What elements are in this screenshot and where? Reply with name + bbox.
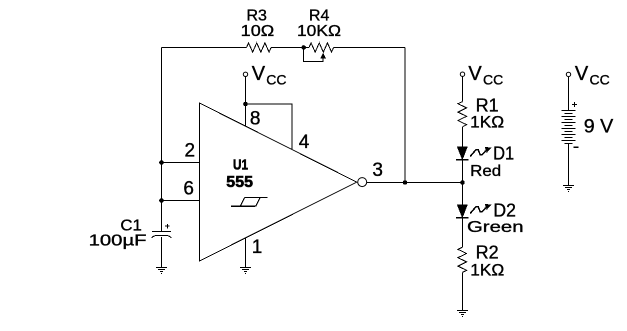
ground at C1 bbox=[156, 268, 167, 274]
op-amp U1 555 triangle body bbox=[200, 103, 357, 261]
wire R2 to ground bbox=[462, 272, 464, 310]
wire top-left horizontal (left node to R3) bbox=[162, 47, 247, 49]
node junction output/top rail bbox=[403, 180, 408, 185]
svg-text:3: 3 bbox=[372, 160, 383, 181]
svg-text:10Ω: 10Ω bbox=[241, 23, 275, 40]
svg-text:U1: U1 bbox=[233, 157, 248, 174]
svg-text:CC: CC bbox=[483, 71, 503, 87]
ground at pin 1 bbox=[240, 268, 251, 274]
battery BT1 9V plates bbox=[561, 111, 575, 144]
svg-text:6: 6 bbox=[183, 179, 194, 200]
wire D2 to R2 bbox=[462, 218, 464, 247]
svg-text:D1: D1 bbox=[493, 144, 514, 164]
svg-text:CC: CC bbox=[590, 71, 610, 87]
R4 wiper wire bbox=[304, 48, 324, 62]
svg-text:D2: D2 bbox=[493, 201, 516, 221]
svg-text:555: 555 bbox=[226, 174, 253, 191]
svg-text:V: V bbox=[468, 63, 482, 85]
wire R3 to R4 bbox=[271, 47, 309, 49]
resistor R2 bbox=[458, 247, 467, 272]
Vcc terminal above R1 bbox=[460, 72, 464, 76]
svg-text:V: V bbox=[575, 63, 589, 85]
svg-text:8: 8 bbox=[250, 109, 261, 130]
wire pin 1 bbox=[245, 238, 247, 267]
wire Vcc to pin 8 bbox=[245, 77, 247, 127]
battery plus sign bbox=[572, 102, 577, 107]
U1 output bubble pin 3 bbox=[358, 178, 367, 187]
ground at R2 bbox=[457, 311, 468, 317]
U1 hysteresis symbol bbox=[231, 197, 268, 206]
wire Vcc to R1 bbox=[462, 76, 464, 101]
resistor R3 bbox=[247, 43, 272, 52]
C1 polarity plus bbox=[165, 224, 170, 229]
LED D1 body bbox=[458, 147, 468, 159]
Vcc terminal above battery bbox=[566, 72, 570, 76]
svg-text:1KΩ: 1KΩ bbox=[470, 113, 504, 132]
svg-text:1KΩ: 1KΩ bbox=[470, 260, 504, 279]
wire C1 to ground bbox=[161, 237, 163, 268]
node junction pin6/left rail bbox=[159, 198, 164, 203]
capacitor C1 top plate bbox=[152, 230, 171, 232]
resistor R1 bbox=[458, 102, 467, 127]
wire R4 to top-right corner bbox=[334, 47, 405, 49]
svg-text:R4: R4 bbox=[309, 7, 330, 24]
svg-text:Red: Red bbox=[470, 163, 501, 180]
wire D1 to D2 bbox=[462, 160, 464, 205]
wire Vcc to battery bbox=[568, 77, 570, 111]
LED D2 light arrow bbox=[470, 207, 486, 214]
R4 wiper arrowhead bbox=[320, 53, 326, 59]
svg-text:10KΩ: 10KΩ bbox=[297, 23, 341, 40]
LED D1 light arrow bbox=[470, 150, 486, 157]
LED D2 cathode bar bbox=[456, 217, 468, 219]
svg-text:2: 2 bbox=[185, 141, 196, 162]
wire pin 4 branch bbox=[246, 104, 293, 150]
Vcc terminal above U1 bbox=[243, 72, 247, 76]
wire output pin3 to LED node bbox=[367, 182, 463, 184]
svg-text:R2: R2 bbox=[476, 242, 499, 262]
LED D1 cathode bar bbox=[456, 159, 468, 161]
svg-text:4: 4 bbox=[299, 132, 310, 153]
svg-text:100µF: 100µF bbox=[89, 232, 147, 249]
node junction pin2/left rail bbox=[159, 160, 164, 165]
wire left vertical bbox=[161, 48, 163, 232]
node junction output/LED branch bbox=[460, 180, 465, 185]
node junction pin8/pin4 bbox=[243, 102, 248, 107]
svg-text:Green: Green bbox=[467, 219, 524, 236]
node junction R3/R4/wiper bbox=[301, 45, 306, 50]
ground at battery bbox=[563, 186, 574, 192]
wire pin 6 bbox=[162, 200, 201, 202]
capacitor C1 bottom plate (curved) bbox=[152, 235, 171, 238]
battery minus sign bbox=[574, 146, 579, 148]
svg-text:9 V: 9 V bbox=[584, 117, 614, 138]
LED D2 body bbox=[458, 205, 468, 217]
wire R1 to D1 bbox=[462, 127, 464, 147]
svg-text:1: 1 bbox=[252, 237, 263, 258]
wire battery to ground bbox=[568, 144, 570, 186]
svg-text:CC: CC bbox=[266, 71, 286, 87]
wire pin 2 bbox=[162, 162, 201, 164]
svg-text:R3: R3 bbox=[247, 7, 268, 24]
wire right vertical (top to output node) bbox=[404, 48, 406, 183]
svg-text:V: V bbox=[252, 63, 266, 85]
potentiometer R4 (rheostat body) bbox=[309, 43, 334, 52]
